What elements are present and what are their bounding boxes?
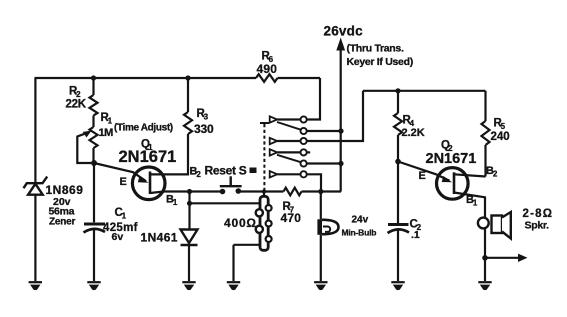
svg-text:26vdc: 26vdc	[324, 24, 364, 39]
svg-text:2: 2	[196, 170, 201, 179]
svg-text:240: 240	[491, 131, 510, 143]
svg-text:5: 5	[501, 122, 506, 131]
svg-text:1: 1	[122, 212, 127, 221]
svg-text:400Ω: 400Ω	[224, 216, 257, 230]
svg-text:Keyer If Used): Keyer If Used)	[347, 56, 413, 68]
svg-text:Reset S: Reset S	[205, 164, 247, 178]
svg-text:3: 3	[204, 113, 209, 122]
svg-text:1: 1	[108, 116, 113, 125]
svg-text:2N1671: 2N1671	[426, 151, 477, 167]
svg-text:1: 1	[473, 199, 478, 208]
svg-text:6v: 6v	[112, 231, 124, 243]
svg-text:E: E	[120, 176, 127, 188]
svg-text:2.2K: 2.2K	[402, 127, 425, 139]
svg-text:E: E	[419, 170, 426, 182]
svg-text:(Time Adjust): (Time Adjust)	[114, 123, 173, 134]
svg-text:330: 330	[194, 122, 214, 136]
svg-text:490: 490	[257, 62, 278, 76]
svg-text:470: 470	[281, 211, 302, 225]
svg-text:1: 1	[173, 198, 178, 207]
svg-text:.1: .1	[411, 229, 420, 241]
svg-text:2N1671: 2N1671	[119, 148, 177, 166]
svg-text:22K: 22K	[66, 99, 87, 111]
svg-text:Spkr.: Spkr.	[525, 219, 550, 231]
svg-text:Min-Bulb: Min-Bulb	[342, 227, 377, 237]
svg-text:Zener: Zener	[49, 216, 76, 227]
svg-text:1M: 1M	[99, 127, 114, 139]
svg-text:1N461: 1N461	[141, 231, 178, 245]
svg-text:2: 2	[493, 169, 498, 178]
svg-text:2-8Ω: 2-8Ω	[523, 208, 554, 220]
svg-text:(Thru Trans.: (Thru Trans.	[347, 43, 404, 55]
svg-text:24v: 24v	[352, 214, 369, 225]
